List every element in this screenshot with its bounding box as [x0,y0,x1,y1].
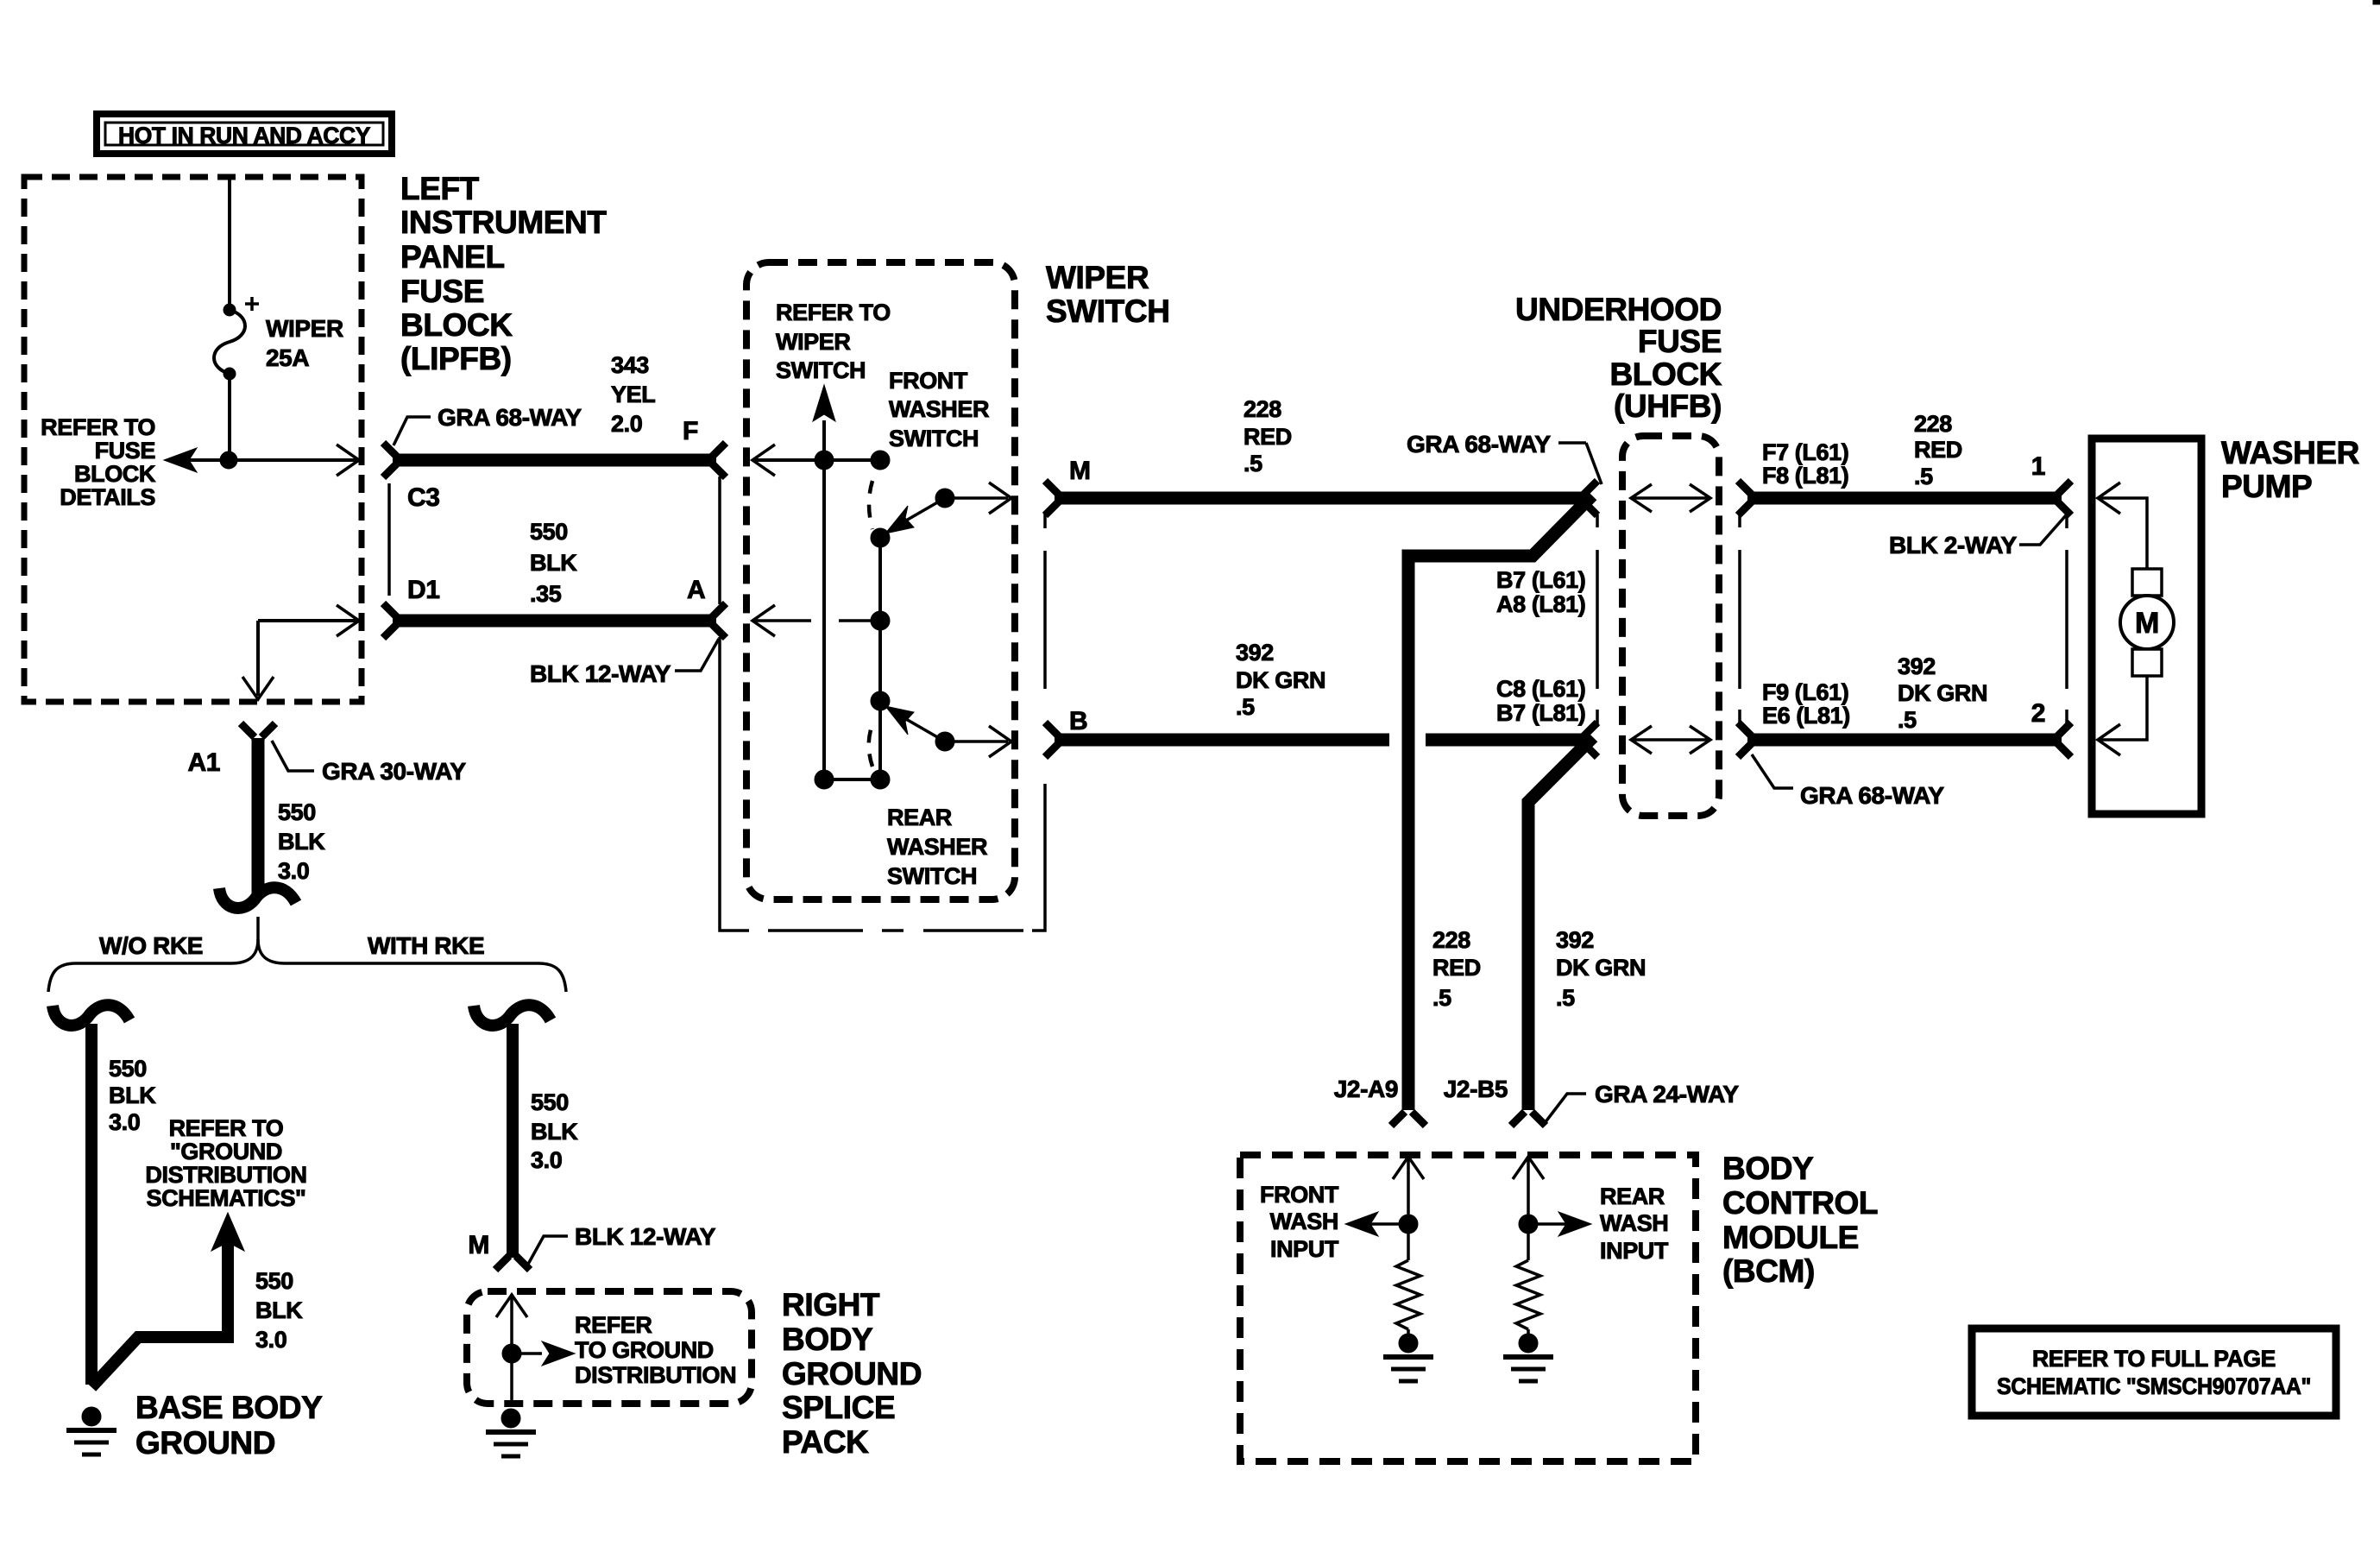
svg-text:BLK 2-WAY: BLK 2-WAY [1889,532,2018,558]
wire 550 BLK 3.0 (with RKE) [474,1005,551,1270]
wire 550 BLK .35 (A) [383,603,726,638]
svg-text:550: 550 [278,799,316,825]
ground (splice pack) [501,1409,520,1428]
label GRA 68-WAY (UHFB left) [1407,431,1602,484]
svg-text:BODY: BODY [782,1322,873,1357]
switch arc (dashed) front [869,481,872,529]
svg-text:FUSE: FUSE [95,438,155,464]
svg-text:(LIPFB): (LIPFB) [400,341,512,376]
wire 392 DK GRN .5 (pump 2) [1738,723,2071,757]
svg-text:BLK: BLK [531,1119,578,1145]
fuse WIPER 25A [214,297,259,380]
svg-text:INSTRUMENT: INSTRUMENT [400,205,607,240]
note box: REFER TO FULL PAGE SCHEMATIC [1972,1328,2336,1416]
svg-text:J2-A9: J2-A9 [1334,1076,1398,1102]
connector bracket BLK 2-WAY [2065,516,2068,727]
label BLK 12-WAY (splice pack) [526,1223,716,1267]
svg-text:REFER TO: REFER TO [776,300,891,325]
svg-text:SPLICE: SPLICE [782,1390,895,1425]
pump return line 2 [2098,676,2147,755]
svg-text:550: 550 [530,519,568,545]
svg-text:.5: .5 [1432,985,1451,1011]
svg-text:PACK: PACK [782,1424,869,1460]
svg-text:BLOCK: BLOCK [74,461,156,487]
svg-text:DK GRN: DK GRN [1898,680,1987,706]
svg-text:M: M [2135,607,2159,640]
svg-text:MODULE: MODULE [1722,1220,1859,1255]
svg-text:INPUT: INPUT [1600,1238,1669,1264]
svg-text:YEL: YEL [611,382,655,407]
wire 550 BLK 3.0 to ground distribution (arrow up) [91,1213,244,1387]
svg-text:GRA 68-WAY: GRA 68-WAY [438,404,582,431]
wire 550 BLK 3.0 (A1 ground feed) [241,723,275,898]
svg-text:SWITCH: SWITCH [776,357,866,383]
brace RKE options [48,917,566,992]
svg-text:LEFT: LEFT [400,171,480,206]
svg-text:DETAILS: DETAILS [60,484,155,510]
svg-text:GRA 68-WAY: GRA 68-WAY [1407,431,1551,458]
svg-text:A8 (L81): A8 (L81) [1496,591,1585,617]
svg-text:"GROUND: "GROUND [170,1139,282,1164]
bottom common [815,770,834,789]
svg-text:DK GRN: DK GRN [1236,667,1325,693]
svg-text:PUMP: PUMP [2221,469,2312,504]
component box: WIPER SWITCH (bold dashed, rounded) [746,262,1015,899]
svg-text:392: 392 [1236,640,1274,666]
svg-text:DISTRIBUTION: DISTRIBUTION [145,1162,306,1188]
UHFB pass-through arrows [1631,484,1710,512]
connector bracket UHFB left side [1596,514,1599,727]
svg-text:550: 550 [255,1268,293,1294]
svg-text:RIGHT: RIGHT [782,1287,880,1322]
svg-text:3.0: 3.0 [278,858,309,884]
svg-text:(BCM): (BCM) [1722,1253,1815,1289]
ground (BCM rear) [1519,1334,1538,1353]
svg-text:BLK: BLK [278,829,325,855]
component box: BODY CONTROL MODULE (dashed) [1240,1155,1696,1461]
wire 392 DK GRN .5 (B) with crossover gap [1045,723,1597,757]
svg-text:.5: .5 [1914,464,1933,489]
svg-text:228: 228 [1914,411,1952,437]
svg-text:REAR: REAR [1600,1183,1665,1209]
label GRA 68-WAY (UHFB lower right) [1752,754,1944,809]
svg-text:RED: RED [1914,437,1962,463]
svg-text:CONTROL: CONTROL [1722,1185,1878,1221]
ground: base body ground [82,1407,101,1426]
svg-text:WASHER: WASHER [887,834,987,860]
svg-text:(UHFB): (UHFB) [1614,388,1722,424]
corner artifact [2373,0,2380,4]
svg-text:REFER TO FULL PAGE: REFER TO FULL PAGE [2032,1346,2276,1372]
svg-text:BLK 12-WAY: BLK 12-WAY [575,1223,716,1250]
svg-text:C8 (L61): C8 (L61) [1496,676,1585,702]
node junction dot [220,451,237,469]
front washer switch: common feed line [752,458,880,462]
svg-text:BLK 12-WAY: BLK 12-WAY [530,660,671,687]
rear switch arc (dashed) [869,727,872,767]
svg-text:SWITCH: SWITCH [887,863,977,889]
label GRA 68-WAY (LIPFB) [394,404,582,445]
svg-text:1: 1 [2031,452,2045,481]
svg-text:WASHER: WASHER [889,396,989,422]
svg-text:F8 (L81): F8 (L81) [1762,463,1848,489]
svg-text:SWITCH: SWITCH [1046,293,1170,329]
svg-text:WASHER: WASHER [2221,435,2359,470]
svg-text:REFER TO: REFER TO [169,1115,284,1141]
svg-text:550: 550 [531,1089,569,1115]
label BLK 12-WAY [530,639,719,687]
svg-text:TO GROUND: TO GROUND [575,1337,714,1363]
switch contacts column [871,528,890,547]
svg-text:3.0: 3.0 [255,1327,286,1353]
svg-text:BLOCK: BLOCK [400,307,513,343]
svg-text:B7 (L61): B7 (L61) [1496,567,1585,593]
svg-text:GRA 68-WAY: GRA 68-WAY [1800,782,1944,809]
svg-text:BLOCK: BLOCK [1609,357,1722,392]
svg-text:SCHEMATIC "SMSCH90707AA": SCHEMATIC "SMSCH90707AA" [1997,1373,2311,1399]
svg-text:SWITCH: SWITCH [889,426,979,451]
svg-text:2.0: 2.0 [611,411,642,437]
splice at A1 wire end [219,887,296,908]
svg-text:3.0: 3.0 [109,1109,140,1135]
label GRA 24-WAY [1545,1081,1739,1123]
splice pack internals [496,1295,575,1407]
svg-text:C3: C3 [407,483,440,512]
svg-text:REAR: REAR [887,805,952,830]
svg-text:BLK: BLK [109,1082,156,1108]
svg-text:BLK: BLK [530,550,577,576]
title box: HOT IN RUN AND ACCY [97,114,392,154]
arrow up refer to wiper switch [813,385,835,421]
svg-text:GRA 30-WAY: GRA 30-WAY [322,758,466,785]
svg-text:A: A [687,576,705,604]
wire 228 RED .5 (pump 1) [1738,481,2071,515]
motor M symbol [2120,569,2174,676]
svg-text:FUSE: FUSE [400,274,484,309]
svg-text:.35: .35 [530,581,562,607]
wire from HOT feed down to fuse [228,180,231,304]
svg-text:BASE BODY: BASE BODY [135,1390,323,1425]
svg-text:DK GRN: DK GRN [1556,955,1646,981]
svg-text:GROUND: GROUND [135,1425,275,1461]
resistor front [1396,1260,1420,1329]
svg-text:DISTRIBUTION: DISTRIBUTION [575,1362,736,1388]
svg-text:A1: A1 [187,748,220,777]
pump feed line 1 [2098,483,2147,569]
svg-text:W/O RKE: W/O RKE [99,932,203,959]
rear switch blade w/ arrow [885,706,954,751]
label BLK 2-WAY [1889,515,2066,558]
svg-text:RED: RED [1432,955,1481,981]
svg-text:WIPER: WIPER [776,329,851,355]
wire to fuse block details arrow [168,458,356,462]
wiper switch connector outline (thin) [720,476,1045,931]
wire 228 RED .5 (M) [1045,481,1597,515]
svg-text:M: M [468,1231,489,1259]
svg-text:228: 228 [1244,396,1281,422]
svg-text:REFER TO: REFER TO [41,414,155,440]
svg-text:.5: .5 [1556,985,1575,1011]
svg-text:B: B [1069,707,1087,735]
svg-text:3.0: 3.0 [531,1147,562,1173]
ground (BCM front) [1399,1334,1418,1353]
svg-text:FRONT: FRONT [889,368,968,394]
svg-text:FRONT: FRONT [1260,1182,1339,1208]
component box: WASHER PUMP [2092,439,2201,814]
component box: splice pack (bold dashed, rounded) [467,1291,752,1404]
svg-text:343: 343 [611,352,649,378]
svg-text:D1: D1 [407,576,440,604]
svg-text:392: 392 [1898,653,1936,679]
svg-text:WASH: WASH [1270,1208,1338,1234]
svg-text:GROUND: GROUND [782,1356,922,1391]
connector bracket LIPFB side [387,483,391,596]
svg-text:WIPER: WIPER [266,315,343,342]
svg-text:550: 550 [109,1056,147,1082]
branch wire 228 RED to BCM (J2-A9) [1408,495,1592,1110]
svg-text:228: 228 [1432,927,1470,953]
wire 343 YEL 2.0 (F) [383,443,726,477]
svg-text:HOT IN RUN AND ACCY: HOT IN RUN AND ACCY [118,123,371,148]
wire 550 BLK 3.0 (w/o RKE) [53,1005,129,1385]
svg-text:UNDERHOOD: UNDERHOOD [1515,292,1722,327]
component box: LEFT INSTRUMENT PANEL FUSE BLOCK (dashed) [24,177,362,702]
BCM front wash input [1345,1157,1424,1260]
svg-text:F: F [683,417,698,445]
line to M terminal [945,496,1008,500]
svg-text:BODY: BODY [1722,1151,1814,1186]
svg-text:SCHEMATICS": SCHEMATICS" [147,1185,306,1211]
svg-text:WASH: WASH [1600,1210,1668,1236]
svg-text:25A: 25A [266,344,309,371]
svg-text:RED: RED [1244,424,1292,450]
svg-text:REFER: REFER [575,1312,652,1338]
svg-text:INPUT: INPUT [1270,1236,1339,1262]
svg-text:J2-B5: J2-B5 [1444,1076,1508,1102]
svg-text:.5: .5 [1236,694,1255,720]
wire fuse to junction [228,374,231,460]
resistor rear [1516,1260,1540,1329]
svg-text:GRA 24-WAY: GRA 24-WAY [1595,1081,1739,1107]
svg-text:WIPER: WIPER [1046,260,1149,295]
svg-text:2: 2 [2031,699,2045,728]
svg-text:.5: .5 [1244,451,1262,476]
line to B terminal [945,740,1008,743]
svg-text:E6 (L81): E6 (L81) [1762,703,1850,729]
svg-text:WITH RKE: WITH RKE [368,932,484,959]
svg-text:B7 (L81): B7 (L81) [1496,700,1585,726]
branch wire 392 DK GRN to BCM (J2-B5) [1528,737,1593,1110]
svg-text:F9 (L61): F9 (L61) [1762,679,1848,705]
wire to D1 connector (lower feed) [258,619,356,622]
svg-text:PANEL: PANEL [400,239,505,275]
svg-text:392: 392 [1556,927,1594,953]
svg-text:BLK: BLK [255,1297,303,1323]
svg-text:M: M [1069,457,1091,485]
BCM rear wash input [1513,1157,1591,1260]
component box: UNDERHOOD FUSE BLOCK (bold dashed, rounded) [1622,436,1719,816]
connector bracket UHFB right side [1738,514,1741,727]
front switch blade w/ arrow [885,489,954,533]
mid line to A terminal [752,619,811,622]
svg-text:FUSE: FUSE [1638,324,1722,359]
svg-text:.5: .5 [1898,707,1917,733]
label GRA 30-WAY [272,741,466,785]
svg-text:F7 (L61): F7 (L61) [1762,439,1848,465]
